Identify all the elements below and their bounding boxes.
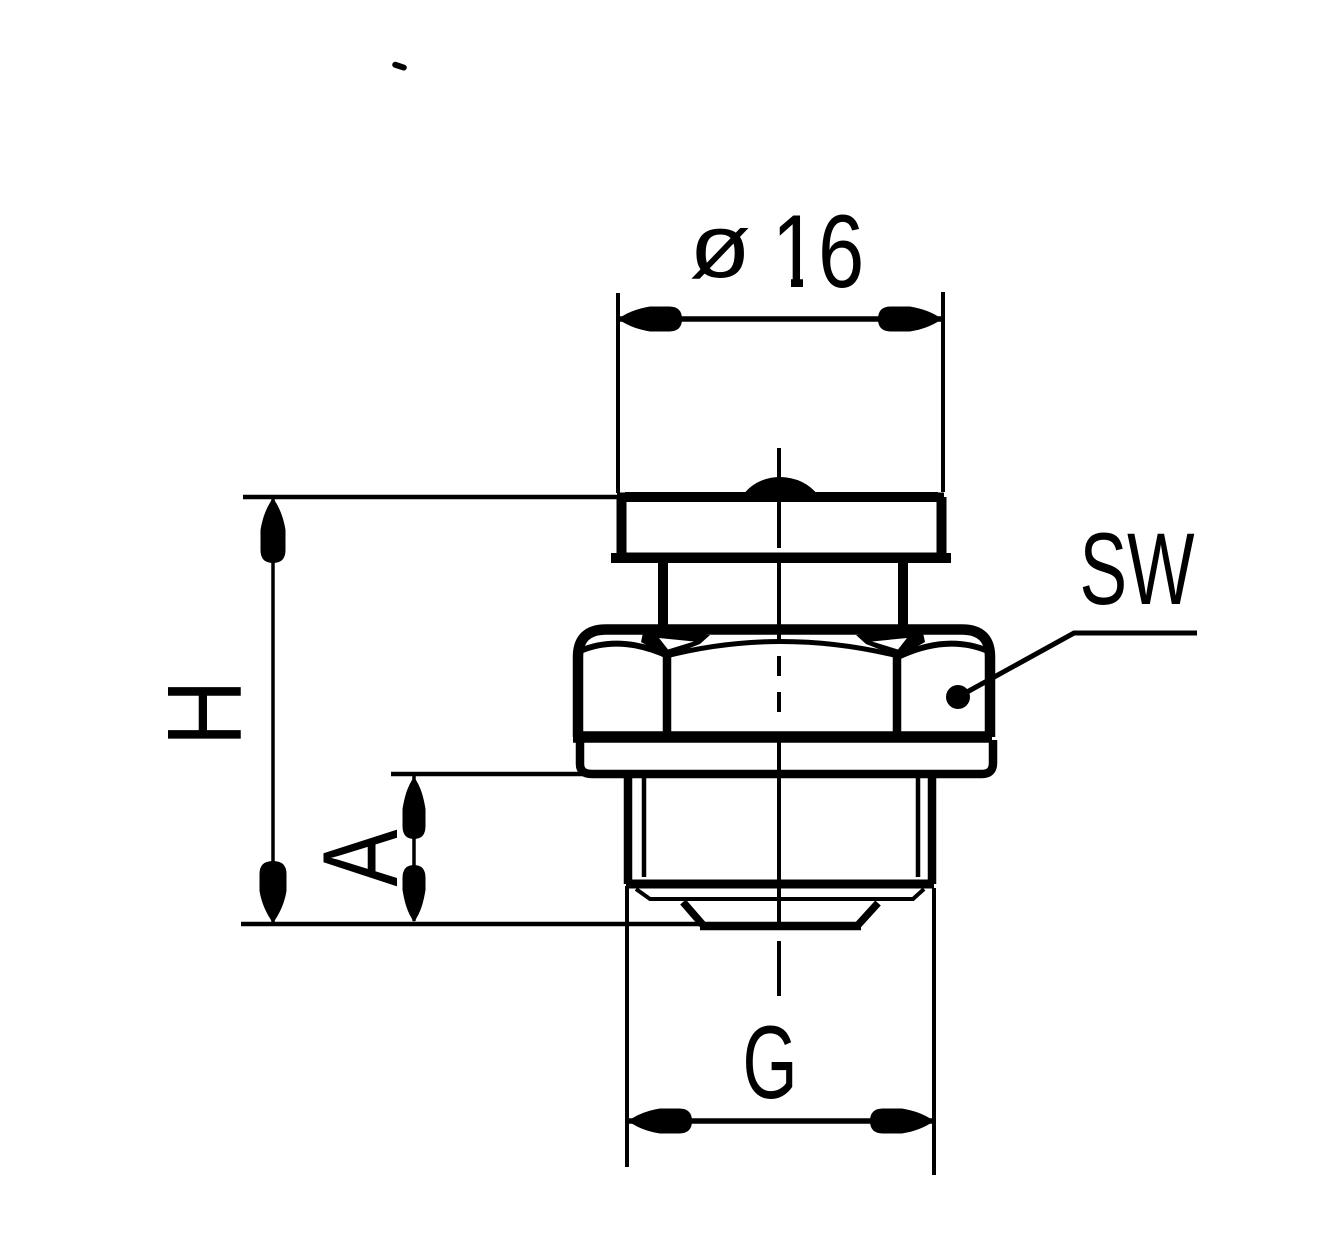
svg-text:SW: SW bbox=[1080, 511, 1195, 626]
thread bottom edge bbox=[626, 880, 934, 889]
svg-text:H: H bbox=[146, 680, 264, 747]
G arrowhead left bbox=[628, 1109, 692, 1134]
H arrowhead down bbox=[260, 861, 287, 923]
fitting head outline bbox=[622, 497, 942, 558]
hex side facet arc right bbox=[900, 644, 988, 656]
tip bottom edge bbox=[700, 922, 861, 931]
dimension label ø 16 bbox=[689, 193, 864, 309]
thread runout ring bbox=[636, 889, 924, 899]
tip chamfer left side bbox=[683, 902, 703, 925]
ø16 arrowhead left bbox=[618, 307, 682, 332]
hex nut outline bbox=[578, 630, 990, 738]
dome bump on head bbox=[743, 477, 818, 495]
hex chamfer wedge left (white) bbox=[659, 638, 694, 650]
SW leader line bbox=[958, 633, 1197, 697]
A dimension line bbox=[412, 776, 416, 921]
thread outer line right bbox=[928, 778, 937, 884]
hex facet edge left bbox=[663, 656, 672, 733]
A top reference line bbox=[391, 772, 584, 777]
svg-text:G: G bbox=[742, 1003, 797, 1120]
G arrowhead right bbox=[870, 1109, 934, 1134]
hex chamfer wedge right (white) bbox=[872, 638, 907, 650]
hex centre facet arc bbox=[666, 642, 898, 657]
thread outer line left bbox=[624, 778, 633, 884]
centerline bbox=[777, 448, 781, 996]
svg-text:ø: ø bbox=[689, 197, 751, 297]
A arrowhead down bbox=[403, 865, 426, 922]
svg-text:16: 16 bbox=[772, 193, 865, 309]
tip chamfer right side bbox=[858, 903, 878, 925]
ø16 dimension line bbox=[618, 316, 943, 322]
G extension line right bbox=[932, 888, 936, 1175]
SW leader dot bbox=[946, 685, 970, 709]
neck right side bbox=[898, 558, 908, 632]
thread minor-diameter line right bbox=[916, 778, 921, 877]
svg-text:A: A bbox=[300, 829, 420, 886]
stray ink speck bbox=[391, 61, 407, 71]
ø16 extension line right bbox=[941, 292, 945, 492]
A arrowhead up bbox=[403, 777, 426, 839]
ø16 extension line left bbox=[616, 293, 620, 493]
head top edge bbox=[617, 493, 944, 502]
hex side facet arc left bbox=[580, 644, 668, 656]
hex facet edge right bbox=[893, 656, 902, 733]
head bottom edge bbox=[611, 553, 951, 563]
H/A bottom reference line bbox=[241, 922, 702, 927]
thread minor-diameter line left bbox=[642, 778, 647, 877]
flange outline bbox=[580, 740, 993, 774]
neck left side bbox=[658, 558, 668, 632]
hex top-left corner fill bbox=[641, 628, 710, 657]
hex bottom edge bbox=[573, 731, 992, 743]
H top reference line bbox=[243, 495, 618, 500]
H dimension line bbox=[271, 499, 275, 922]
G extension line left bbox=[625, 886, 629, 1167]
G dimension line bbox=[628, 1118, 934, 1124]
H arrowhead up bbox=[261, 498, 286, 563]
hex top-right corner fill bbox=[856, 628, 925, 657]
ø16 arrowhead right bbox=[878, 307, 942, 332]
